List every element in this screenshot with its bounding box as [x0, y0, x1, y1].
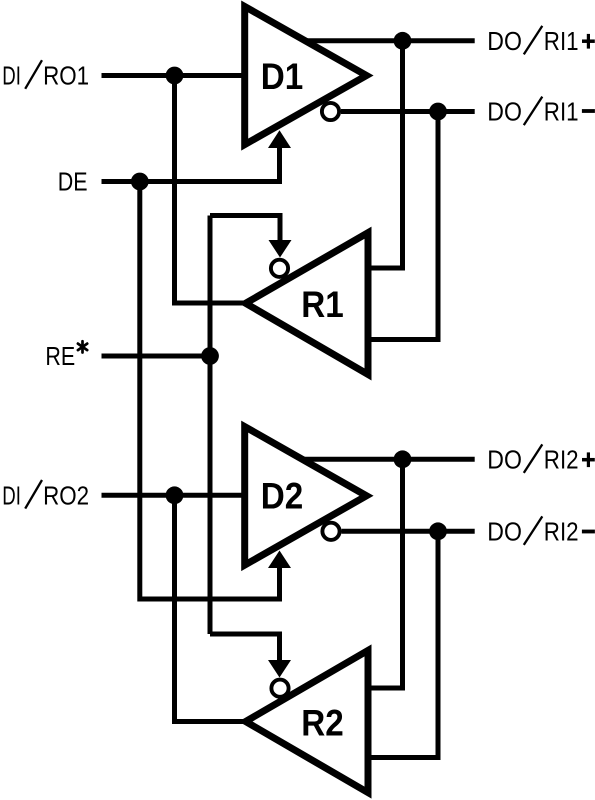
arrow D1 enable [268, 130, 291, 148]
wire DI/RO2 to D2 input [102, 493, 248, 498]
svg-text:DE: DE [58, 169, 88, 197]
svg-text:DO: DO [487, 28, 522, 56]
junction dot RE* [201, 347, 219, 365]
wire vertical DO/RI1- to R1 input [367, 112, 438, 340]
wire vertical DO/RI1+ to R1 input [367, 41, 403, 268]
svg-text:R1: R1 [301, 284, 344, 325]
junction dot DE [131, 173, 149, 191]
junction dot DI/RO1 [166, 67, 184, 85]
wire node A vertical DI/RO1 to R1 output [172, 76, 177, 304]
wire R1 output horizontal [172, 301, 248, 306]
driver D1 [245, 7, 367, 145]
svg-text:RI2: RI2 [544, 518, 579, 546]
bubble D1 inverting output [322, 103, 339, 120]
pin label DO/RI1+ [487, 26, 595, 56]
svg-text:RI1: RI1 [544, 28, 579, 56]
wire DI/RO1 to D1 input [102, 73, 248, 78]
pin label RE* [45, 341, 87, 371]
driver D2 [245, 427, 367, 565]
wire RE* branch to R2 enable [210, 634, 280, 662]
svg-text:RE: RE [45, 343, 75, 371]
bubble R2 enable [271, 680, 288, 697]
junction dot DO/RI1+ [394, 32, 412, 50]
svg-text:RI2: RI2 [544, 446, 579, 474]
wire RE* vertical trunk [208, 216, 213, 635]
junction dot DO/RI2+ [394, 450, 412, 468]
pin label DO/RI2+ [487, 444, 595, 474]
wire RE* horizontal [102, 354, 211, 359]
svg-text:DO: DO [487, 99, 522, 127]
wire DE vertical down and run to D2 enable [140, 182, 280, 600]
wire D2 output minus [342, 529, 475, 534]
svg-text:RI1: RI1 [544, 99, 579, 127]
wire R2 output horizontal [172, 719, 248, 724]
svg-text:DO: DO [487, 446, 522, 474]
wire vertical DO/RI2+ to R2 input [367, 459, 403, 688]
svg-text:D1: D1 [261, 56, 304, 97]
pin label DI/RO2 [2, 480, 89, 510]
arrow R1 enable [269, 240, 292, 258]
svg-text:RO1: RO1 [43, 63, 89, 91]
bubble R1 enable [271, 260, 288, 277]
svg-text:DO: DO [487, 518, 522, 546]
junction dot DO/RI1- [429, 103, 447, 121]
wire DE horizontal and riser to D1 enable [102, 146, 280, 182]
svg-text:RO2: RO2 [43, 482, 89, 510]
wire D2 output plus [300, 457, 475, 462]
arrow D2 enable [268, 551, 291, 569]
bubble D2 inverting output [322, 523, 339, 540]
svg-text:DI: DI [2, 482, 21, 510]
pin label DO/RI2- [487, 516, 595, 546]
wire D1 output minus [341, 109, 475, 114]
svg-text:R2: R2 [301, 703, 344, 744]
pin label DI/RO1 [2, 60, 89, 90]
wire vertical DO/RI2- to R2 input [367, 531, 438, 757]
wire RE* branch to R1 enable [210, 216, 280, 241]
wire D1 output plus [303, 38, 475, 43]
wire node B vertical DI/RO2 to R2 output [172, 495, 177, 721]
receiver R1 [246, 233, 368, 375]
svg-text:DI: DI [2, 63, 21, 91]
svg-text:D2: D2 [261, 476, 304, 517]
junction dot DO/RI2- [429, 522, 447, 540]
receiver R2 [246, 650, 368, 792]
junction dot DI/RO2 [166, 486, 184, 504]
pin label DO/RI1- [487, 97, 595, 127]
arrow R2 enable [268, 660, 291, 678]
